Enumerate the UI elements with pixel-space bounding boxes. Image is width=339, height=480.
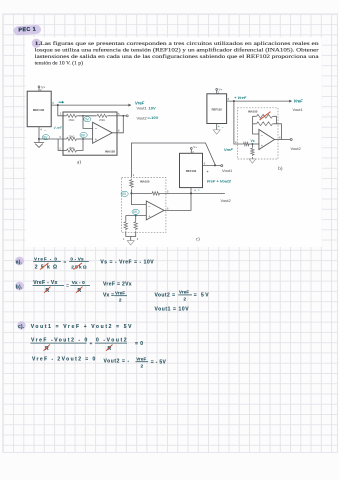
resistor feedback bottom (b)	[256, 122, 274, 126]
wire Vx down and ground symbol (b)	[249, 144, 256, 163]
op-amp A3 (circuit c)	[146, 201, 164, 220]
highlight blob marker c	[17, 321, 25, 329]
svg-text:=: =	[66, 283, 69, 288]
svg-text:Vout1: Vout1	[222, 168, 233, 173]
highlight blob item 1	[32, 39, 41, 48]
pin labels 3 and 1 (INA105 a)	[59, 135, 61, 151]
wire node to resistor and pin5 (c)	[131, 192, 151, 194]
node pin6 junction (c)	[214, 164, 216, 166]
svg-text:Vout1: Vout1	[293, 107, 304, 112]
svg-text:VreF: VreF	[136, 356, 146, 361]
voltage reference U3 REF102 (circuit b)	[207, 94, 227, 124]
svg-text:VreF - 2Vout2 = 0: VreF - 2Vout2 = 0	[32, 357, 97, 363]
svg-text:PEC 1: PEC 1	[18, 27, 36, 34]
handwritten Vout2 = -VreF/2 = -5V	[104, 356, 167, 368]
wire feedback resistor to pin5 (a)	[108, 115, 123, 117]
svg-text:Vout2: Vout2	[137, 115, 148, 120]
svg-text:Vout2: Vout2	[221, 198, 232, 203]
wire op-amp output to bus (c)	[164, 188, 191, 211]
svg-text:lastensiones de salida en cada: lastensiones de salida en cada una de la…	[35, 53, 320, 60]
wire node down to op-amp minus (c)	[131, 193, 146, 204]
svg-text:−: −	[95, 126, 98, 131]
svg-text:=: =	[64, 259, 67, 264]
node feedback junction (a)	[82, 115, 84, 117]
handwritten Vx = VreF/2	[103, 290, 127, 302]
svg-text:REF102: REF102	[186, 169, 197, 173]
svg-text:b).: b).	[16, 285, 23, 291]
svg-text:0V: 0V	[122, 192, 127, 196]
amplifier block U2 INA105 (circuit a)	[63, 112, 117, 155]
highlight blob marker a	[15, 257, 24, 266]
resistor vertical right (c)	[134, 216, 137, 231]
handwritten fraction (VreF-0)/25k	[33, 256, 61, 270]
svg-text:tensión de 10 V. (1 p): tensión de 10 V. (1 p)	[35, 60, 83, 67]
svg-text:=-10V: =-10V	[148, 115, 159, 120]
node plus input teal (c)	[135, 215, 137, 217]
op-amp A2 (circuit b)	[259, 130, 275, 150]
svg-text:V+: V+	[41, 86, 45, 90]
svg-text:losque se utiliza una referenc: losque se utiliza una referencia de tens…	[35, 47, 319, 54]
node bus crossing (c)	[190, 192, 192, 194]
svg-text:Vx =: Vx =	[103, 292, 114, 298]
handwritten fraction (Vx-0)/R	[70, 280, 90, 294]
highlight blob marker b	[15, 282, 24, 291]
svg-text:V-reF: V-reF	[54, 126, 63, 130]
resistor 25k (a bottom)	[66, 147, 78, 152]
svg-text:=: =	[198, 188, 200, 192]
wire plus input run (c)	[126, 215, 147, 217]
teal circled 0V (node c)	[121, 191, 128, 196]
svg-text:Vout1: Vout1	[137, 106, 148, 111]
handwritten fraction (0-Vout2)/R	[95, 337, 128, 351]
voltage reference U4 REF102 (circuit c)	[180, 153, 203, 187]
resistor input (b)	[243, 142, 251, 145]
teal circled 0V annotation (feedback node a)	[84, 117, 91, 122]
amplifier block INA105 dashed (circuit b)	[238, 108, 279, 159]
svg-text:Vx: Vx	[251, 139, 255, 143]
svg-text:INA105: INA105	[140, 179, 150, 183]
svg-text:c): c)	[196, 237, 200, 242]
resistor vertical input (c)	[130, 179, 134, 188]
svg-text:0V: 0V	[85, 118, 90, 122]
wire stubs INA105a rows	[63, 116, 66, 151]
wire REF102c pin6 to Vout1 terminal	[203, 162, 223, 167]
svg-text:+: +	[207, 170, 209, 174]
terminal Vout2 (circuit a)	[123, 115, 128, 117]
wire op-amp output to Vout2 terminal (b)	[275, 136, 293, 141]
svg-text:= 0: = 0	[135, 341, 144, 347]
svg-text:INA105: INA105	[248, 110, 258, 114]
wire feedback right bus (b)	[253, 116, 282, 139]
svg-text:VreF -Vout2 - 0: VreF -Vout2 - 0	[31, 337, 89, 343]
svg-text:VreF - 0: VreF - 0	[34, 256, 58, 261]
pin label 4 and teal = (c)	[194, 188, 200, 192]
svg-text:25kΩ: 25kΩ	[69, 119, 75, 122]
svg-text:Vout1 = VreF + Vout2 = 5V: Vout1 = VreF + Vout2 = 5V	[31, 324, 133, 330]
svg-text:a).: a).	[16, 260, 23, 266]
svg-text:V+: V+	[193, 145, 197, 149]
svg-text:25kΩ: 25kΩ	[69, 135, 75, 138]
wire top feedback run (circuit c)	[131, 143, 215, 177]
op-amp A1 (circuit a)	[93, 122, 113, 143]
wire node down to INA105a pin2	[58, 105, 63, 116]
wire feedback node to op-amp minus (a)	[83, 116, 93, 129]
svg-text:VreF: VreF	[294, 99, 304, 104]
teal arrow annotation on Vref node	[59, 101, 65, 104]
resistor to ground from Vx (b)	[251, 147, 254, 156]
printed label Vout2 with teal -10V (a)	[137, 115, 159, 120]
svg-text:REF102: REF102	[212, 108, 223, 112]
svg-text:+ VreF: + VreF	[234, 95, 247, 100]
handwritten Vout2 = VreF/2 = 5V	[155, 290, 211, 302]
handwritten fraction (VreF-Vout2-0)/R	[31, 337, 89, 351]
node Vx (b)	[251, 143, 253, 145]
svg-text:a): a)	[77, 160, 81, 165]
svg-text:Vout2 =: Vout2 =	[155, 293, 176, 299]
svg-text:VreF: VreF	[224, 147, 233, 152]
teal circled 0V (plus node c)	[132, 209, 139, 214]
svg-text:c).: c).	[18, 324, 25, 330]
resistor horizontal to pin5 (c)	[151, 192, 161, 195]
handwritten fraction (VreF-Vx)/R	[33, 280, 64, 294]
wire REF102a pin6 output to Vout1	[51, 101, 131, 107]
wire pin5 out to Vout2 (c)	[161, 189, 225, 193]
svg-text:+: +	[90, 342, 93, 347]
printed label Vout1 with teal 10V (a)	[137, 105, 156, 110]
svg-text:b): b)	[278, 167, 283, 172]
svg-text:25kΩ: 25kΩ	[35, 264, 61, 270]
svg-text:−: −	[222, 126, 224, 130]
svg-text:= 5V: = 5V	[194, 293, 210, 299]
svg-text:0 - Vs: 0 - Vs	[70, 256, 84, 261]
svg-text:VreF: VreF	[115, 290, 125, 295]
resistor 25k input (a top-left)	[66, 114, 78, 122]
node ground (circuit a)	[38, 138, 40, 140]
wire op-amp minus to feedback bus (b)	[253, 116, 259, 134]
voltage reference U1 REF102 (circuit a)	[27, 91, 51, 127]
wire middle resistor to op-amp plus (a)	[78, 138, 93, 140]
teal 0V annotation (plus node a)	[80, 132, 87, 137]
svg-text:V+: V+	[219, 87, 223, 91]
svg-text:REF102: REF102	[33, 108, 45, 112]
svg-text:+: +	[95, 137, 98, 142]
svg-text:25kΩ: 25kΩ	[69, 147, 75, 150]
wire REF102b pin4 to ground (b)	[213, 124, 223, 135]
power V+ terminal (circuit b)	[216, 87, 223, 94]
wire node down to INA105b pin2	[234, 101, 243, 144]
teal circled 0V annotation (ground node a)	[42, 135, 49, 140]
resistor vertical left (c)	[124, 216, 127, 231]
wire Vx to op-amp plus (b)	[250, 143, 259, 145]
svg-text:Vs = - VreF = - 10V: Vs = - VreF = - 10V	[100, 260, 154, 266]
resistor 25k (a middle)	[66, 135, 78, 140]
wire REF102a pin4 to ground	[39, 127, 42, 139]
wire ground node to INA105a pins 3 and 1	[39, 139, 63, 151]
highlight blob header	[13, 25, 41, 36]
svg-text:0V: 0V	[133, 210, 138, 214]
resistor feedback top with red strike (b)	[256, 112, 274, 120]
svg-text:Vout2 = -: Vout2 = -	[104, 358, 130, 364]
resistor 25k feedback (a top-right)	[96, 114, 108, 122]
svg-text:0 -Vout2: 0 -Vout2	[96, 337, 128, 343]
node Vref (circuit b)	[233, 100, 235, 102]
svg-text:Vout1 = 10V: Vout1 = 10V	[155, 306, 190, 312]
wire bottom resistor up to plus node (a)	[78, 139, 84, 151]
node plus input (a)	[82, 138, 84, 140]
handwritten fraction (0-Vs)/25k	[69, 256, 89, 269]
svg-text:25kΩ: 25kΩ	[99, 119, 105, 122]
svg-text:Vout2: Vout2	[291, 146, 302, 151]
svg-text:10V: 10V	[149, 105, 156, 110]
svg-text:0V: 0V	[81, 133, 86, 137]
svg-text:VreF: VreF	[179, 290, 189, 295]
svg-text:VreF + Vout2: VreF + Vout2	[207, 178, 232, 183]
node minus junction (c)	[130, 192, 132, 194]
ground symbol (c)	[127, 241, 134, 245]
power V+ terminal (circuit c)	[190, 145, 197, 154]
svg-text:= - 5V: = - 5V	[151, 359, 167, 365]
wire bottom join and pins 1 3 (c)	[123, 231, 139, 241]
power V+ terminal (circuit a)	[38, 86, 45, 93]
node output junction (a)	[122, 115, 124, 117]
svg-text:INA105: INA105	[105, 150, 116, 154]
ground symbol (circuit a)	[34, 139, 44, 147]
wire REF102b pin6 to Vout1 arrow	[227, 97, 293, 102]
wire op-amp output to pin6 and feedback (a)	[112, 116, 123, 133]
svg-text:1.Las figuras que se presentan: 1.Las figuras que se presentan correspon…	[35, 40, 319, 47]
svg-text:VreF = 2Vx: VreF = 2Vx	[103, 282, 132, 288]
amplifier block INA105 dashed (circuit c)	[122, 177, 166, 232]
node Vref (circuit a)	[57, 104, 59, 106]
wire resistor to node (c)	[130, 189, 132, 193]
wire between top resistors (a)	[78, 115, 97, 117]
